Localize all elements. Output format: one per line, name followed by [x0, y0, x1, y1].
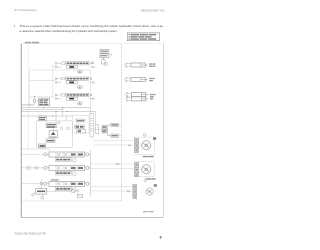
svg-text:(19): (19) [128, 145, 131, 147]
svg-text:(4A): (4A) [127, 190, 131, 193]
svg-text:6: 6 [160, 236, 162, 240]
svg-text:SEN02497-00: SEN02497-00 [141, 9, 165, 13]
svg-text:PC160LC-7E0, PC180LC,LGP-7E0: PC160LC-7E0, PC180LC,LGP-7E0 [14, 232, 46, 236]
svg-text:This is a system chart that ha: This is a system chart that has been dra… [20, 24, 164, 28]
svg-text:a reference material when trou: a reference material when troubleshootin… [20, 29, 118, 33]
svg-text:40 Troubleshooting: 40 Troubleshooting [14, 8, 37, 12]
svg-text:•: • [14, 24, 16, 28]
